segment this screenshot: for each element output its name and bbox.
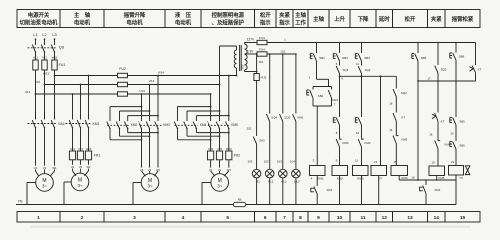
svg-text:松开: 松开	[260, 11, 271, 19]
fuse FU3	[257, 40, 267, 44]
svg-text:11: 11	[355, 159, 358, 163]
contact KM3 interlock	[339, 125, 341, 139]
svg-text:夹紧: 夹紧	[279, 11, 290, 19]
svg-text:HL3: HL3	[294, 179, 300, 183]
svg-text:W13: W13	[43, 71, 50, 75]
transformer TC core	[239, 45, 241, 71]
contact KM1 (lamp HL3 branch)	[295, 53, 297, 55]
wire KM2 loop conductors	[110, 106, 142, 108]
contact KT delayed clamp	[437, 81, 439, 113]
wire KM2/KM3 feeders	[141, 93, 143, 95]
svg-text:FU2: FU2	[119, 67, 126, 71]
svg-text:103: 103	[277, 160, 282, 164]
wire release tap	[395, 76, 397, 88]
svg-text:U1: U1	[34, 166, 38, 170]
lamp HL1	[265, 169, 274, 178]
svg-text:L3: L3	[52, 33, 56, 37]
wire M4 leads	[210, 160, 212, 172]
contact KT delayed	[393, 113, 396, 121]
contactor KM2 main contacts	[107, 122, 110, 129]
wire 11	[361, 147, 363, 166]
svg-text:SB6: SB6	[459, 55, 465, 59]
contact KM2 interlock	[361, 125, 363, 139]
svg-text:KM2: KM2	[337, 176, 344, 180]
contact SQ2	[361, 61, 363, 66]
wire tie raise/lower	[340, 75, 397, 77]
button SB4 interlock pole	[336, 118, 339, 125]
wire phase L3 vertical	[54, 70, 56, 171]
svg-text:控制照明电源: 控制照明电源	[212, 11, 245, 19]
svg-text:KM1: KM1	[93, 122, 100, 126]
svg-text:V23: V23	[217, 147, 222, 151]
coil KM2	[332, 166, 348, 176]
svg-text:W2: W2	[86, 165, 91, 169]
wire 3	[316, 106, 318, 166]
svg-text:14: 14	[389, 128, 393, 132]
contact SQ1	[339, 61, 341, 66]
coil KM3	[353, 166, 369, 176]
fuse FU1	[35, 52, 37, 60]
wire M1 PE lead	[27, 182, 36, 184]
svg-text:7: 7	[283, 215, 286, 221]
svg-text:SB4: SB4	[364, 56, 370, 60]
svg-text:8: 8	[299, 215, 302, 221]
svg-text:SB1: SB1	[319, 56, 325, 60]
svg-text:指示: 指示	[279, 18, 290, 26]
coil KM4	[391, 166, 408, 176]
wire M2 leads	[72, 160, 74, 171]
svg-text:KT: KT	[478, 68, 482, 72]
svg-text:L2: L2	[42, 33, 46, 37]
svg-text:10: 10	[337, 215, 343, 221]
switch SA1	[35, 119, 37, 128]
wire 16 bottom link	[398, 176, 400, 181]
wire phase L2 vertical	[44, 70, 46, 171]
svg-text:KM1: KM1	[297, 116, 303, 120]
svg-text:102: 102	[264, 160, 269, 164]
svg-text:KM2: KM2	[131, 123, 138, 127]
svg-text:松开: 松开	[405, 15, 416, 23]
contactor KM3 main contacts	[138, 122, 141, 129]
button SB5 second pole	[453, 118, 456, 125]
svg-text:HL1: HL1	[268, 179, 274, 183]
svg-text:FU5: FU5	[261, 75, 267, 79]
wire 18b	[437, 121, 439, 140]
svg-text:、及短路保护: 、及短路保护	[212, 18, 245, 26]
wire 13	[380, 76, 382, 165]
svg-text:EL: EL	[257, 179, 261, 183]
svg-text:9: 9	[317, 215, 320, 221]
svg-text:KM3: KM3	[163, 123, 170, 127]
lamp HL2	[279, 169, 288, 178]
svg-text:12: 12	[382, 215, 388, 221]
svg-text:6.3V: 6.3V	[247, 49, 254, 53]
wire 14	[395, 121, 397, 135]
svg-text:SB5: SB5	[421, 56, 427, 60]
svg-text:V13: V13	[78, 147, 83, 151]
svg-text:指示: 指示	[260, 18, 271, 26]
svg-text:夹紧: 夹紧	[431, 15, 442, 23]
coil KM1	[310, 166, 326, 176]
svg-text:主轴: 主轴	[313, 15, 324, 23]
svg-text:V11: V11	[42, 56, 47, 60]
svg-text:13: 13	[407, 215, 413, 221]
svg-text:3~: 3~	[42, 184, 47, 189]
svg-text:SA2: SA2	[259, 138, 265, 142]
svg-text:203: 203	[248, 160, 253, 164]
wire bus W13	[54, 75, 56, 77]
svg-text:下降: 下降	[358, 15, 369, 23]
svg-text:15: 15	[460, 215, 466, 221]
transformer TC secondary	[245, 44, 248, 70]
contact SQ3	[437, 42, 439, 44]
transformer TC primary	[234, 50, 236, 68]
svg-text:10: 10	[356, 131, 360, 135]
wire FR2 leads	[210, 129, 212, 152]
lamp EL	[252, 169, 261, 178]
motor M4	[211, 174, 229, 192]
svg-text:PE: PE	[18, 199, 22, 203]
svg-text:3~: 3~	[77, 183, 82, 188]
switch QS	[35, 39, 37, 45]
contact FR2	[425, 180, 427, 185]
switch SA2	[253, 137, 256, 144]
motor M3	[141, 174, 159, 192]
button SB2	[310, 90, 313, 98]
button SB5	[417, 42, 419, 44]
svg-text:U11: U11	[33, 56, 38, 60]
svg-text:101: 101	[280, 49, 285, 53]
svg-text:U14: U14	[139, 89, 145, 93]
svg-text:工作: 工作	[295, 18, 306, 26]
svg-text:20: 20	[450, 132, 454, 136]
wire 21	[455, 149, 457, 166]
coil KT	[371, 166, 387, 176]
wire KM4 loop conductors	[178, 106, 211, 108]
svg-text:KT: KT	[441, 120, 445, 124]
svg-text:SQ2: SQ2	[365, 68, 371, 72]
svg-text:电动机: 电动机	[126, 18, 143, 26]
svg-text:202: 202	[247, 127, 252, 131]
svg-text:3~: 3~	[217, 184, 222, 189]
wire M4 PE lead	[202, 182, 211, 184]
svg-text:11: 11	[360, 215, 365, 221]
footer number row	[17, 212, 60, 223]
svg-text:201: 201	[259, 60, 264, 64]
wire 17 tie	[418, 80, 476, 82]
svg-text:V2: V2	[79, 165, 83, 169]
svg-text:W23: W23	[226, 147, 232, 151]
contact KM5 interlock	[393, 136, 396, 144]
svg-text:5: 5	[226, 215, 229, 221]
button SB3	[339, 42, 341, 44]
contact SQ2 release	[393, 89, 396, 96]
svg-text:KM5: KM5	[438, 176, 445, 180]
button SB3 interlock pole	[358, 118, 361, 125]
wire 18	[395, 97, 397, 113]
svg-text:17: 17	[427, 77, 431, 81]
svg-text:FU4: FU4	[259, 48, 265, 52]
svg-text:W4: W4	[227, 168, 232, 172]
svg-text:U2: U2	[71, 165, 75, 169]
wire EL branch	[256, 81, 258, 137]
svg-text:SB6: SB6	[459, 144, 465, 148]
svg-text:KM5: KM5	[401, 138, 407, 142]
svg-text:摇臂升降: 摇臂升降	[124, 11, 146, 19]
svg-text:KM4: KM4	[401, 176, 408, 180]
svg-text:SQ2: SQ2	[401, 91, 407, 95]
wire M1 leads	[33, 166, 38, 170]
svg-text:KM3: KM3	[357, 176, 364, 180]
svg-text:W14: W14	[158, 70, 165, 74]
fuse FU5	[254, 74, 259, 81]
svg-text:36V: 36V	[240, 64, 244, 69]
wire KM4/KM5 feeders	[210, 93, 212, 95]
svg-text:U13: U13	[25, 90, 31, 94]
wire SB2/KM1 parallel ties	[313, 86, 332, 88]
svg-text:19: 19	[431, 161, 435, 165]
svg-text:1: 1	[37, 215, 40, 221]
wire phase L1 vertical	[35, 70, 37, 171]
svg-text:FR2: FR2	[234, 154, 241, 158]
svg-text:12: 12	[356, 62, 360, 66]
svg-text:FU1: FU1	[59, 63, 66, 67]
svg-text:16: 16	[411, 176, 415, 180]
wire bus U13	[35, 93, 37, 95]
svg-text:18: 18	[389, 102, 393, 106]
wire 15	[395, 144, 397, 166]
wire 2	[316, 61, 318, 79]
lamp HL3	[292, 169, 301, 178]
wire M3 PE lead	[133, 182, 141, 184]
wire PE / return bus	[16, 204, 456, 206]
svg-text:XB: XB	[238, 198, 242, 202]
svg-text:YV: YV	[459, 176, 463, 180]
coil KM5	[429, 166, 445, 176]
svg-text:W1: W1	[52, 166, 57, 170]
svg-text:液 压: 液 压	[175, 11, 192, 19]
svg-text:6: 6	[264, 215, 267, 221]
svg-text:KM3: KM3	[343, 141, 349, 145]
fuse FU2	[118, 73, 128, 77]
contact KM1 self-hold	[328, 90, 331, 98]
svg-text:3: 3	[133, 215, 136, 221]
svg-text:V12: V12	[35, 80, 41, 84]
wire bus 101	[267, 53, 296, 55]
svg-text:KM5: KM5	[231, 123, 238, 127]
svg-text:延时: 延时	[378, 15, 390, 23]
svg-text:W13: W13	[86, 147, 92, 151]
motor M2	[71, 173, 89, 191]
wire 9	[339, 147, 341, 166]
svg-text:SB3: SB3	[342, 56, 348, 60]
svg-text:3~: 3~	[147, 184, 152, 189]
scan smudge bottom	[30, 226, 470, 228]
thermal relay FR2 heaters	[208, 151, 214, 160]
svg-text:L1: L1	[33, 33, 37, 37]
contact KM4 interlock	[435, 141, 438, 149]
wire 6	[339, 74, 341, 118]
svg-text:QS: QS	[59, 46, 65, 50]
fuse FU4	[257, 52, 267, 56]
svg-text:SQ1: SQ1	[343, 68, 349, 72]
svg-text:21: 21	[451, 160, 455, 164]
wire 19	[437, 149, 439, 167]
node 6.3V tap	[245, 53, 258, 55]
header table	[17, 10, 60, 28]
svg-text:电动机: 电动机	[74, 18, 91, 26]
contact FR1	[316, 176, 318, 187]
svg-text:18: 18	[429, 132, 433, 136]
svg-text:14: 14	[434, 215, 440, 221]
svg-text:KT: KT	[401, 116, 405, 120]
svg-text:U23: U23	[208, 147, 213, 151]
svg-text:4: 4	[182, 215, 185, 221]
svg-text:切削油泵电动机: 切削油泵电动机	[20, 18, 58, 26]
svg-text:KM4: KM4	[200, 123, 207, 127]
button SB1	[316, 42, 318, 44]
svg-text:2: 2	[81, 215, 84, 221]
solenoid valve YV	[449, 166, 464, 176]
svg-text:SQ3: SQ3	[441, 68, 447, 72]
svg-text:HL2: HL2	[281, 179, 287, 183]
svg-text:FR2: FR2	[435, 188, 441, 192]
svg-text:SB5: SB5	[459, 120, 465, 124]
wire control bus 1	[267, 42, 476, 44]
button SB4	[361, 42, 363, 44]
motor M1	[36, 174, 54, 192]
svg-text:SQ4: SQ4	[271, 116, 277, 120]
svg-text:主轴: 主轴	[295, 11, 306, 19]
svg-text:15: 15	[393, 160, 397, 164]
wire bus V12	[44, 84, 46, 86]
thermal relay FR1 heaters	[69, 151, 75, 160]
node 127V tap	[244, 43, 246, 45]
svg-text:SA1: SA1	[58, 122, 65, 126]
svg-text:电动机: 电动机	[175, 18, 192, 26]
svg-text:SB2: SB2	[318, 94, 324, 98]
svg-text:KM2: KM2	[365, 141, 371, 145]
contact SQ5 (lamp HL2 branch)	[282, 53, 284, 55]
svg-text:13: 13	[374, 160, 378, 164]
svg-text:V14: V14	[149, 79, 155, 83]
button SB6 second pole	[455, 125, 457, 141]
contact KT instant	[475, 43, 477, 66]
svg-text:KM1: KM1	[317, 176, 324, 180]
svg-text:FR1: FR1	[327, 188, 333, 192]
svg-text:上升: 上升	[334, 15, 345, 23]
svg-text:摇臂松紧: 摇臂松紧	[452, 15, 474, 23]
contact SQ4 (lamp HL1 branch)	[269, 53, 271, 55]
svg-text:SQ5: SQ5	[284, 116, 290, 120]
svg-text:127V: 127V	[247, 38, 255, 42]
contactor KM1 main contacts	[72, 93, 74, 95]
wire M3 leads	[141, 129, 143, 172]
terminal XB	[233, 202, 246, 206]
svg-text:W11: W11	[52, 56, 58, 60]
svg-text:主 轴: 主 轴	[74, 11, 91, 19]
button SB6	[455, 42, 457, 44]
svg-text:U13: U13	[70, 147, 75, 151]
svg-text:电源开关: 电源开关	[28, 11, 50, 19]
contactor KM5 main contacts	[207, 122, 210, 129]
svg-text:FU3: FU3	[259, 36, 265, 40]
contactor KM4 main contacts	[174, 122, 177, 129]
svg-text:FR1: FR1	[94, 154, 101, 158]
svg-text:V1: V1	[43, 166, 47, 170]
svg-text:104: 104	[290, 160, 295, 164]
wire M2 PE lead	[64, 181, 71, 183]
